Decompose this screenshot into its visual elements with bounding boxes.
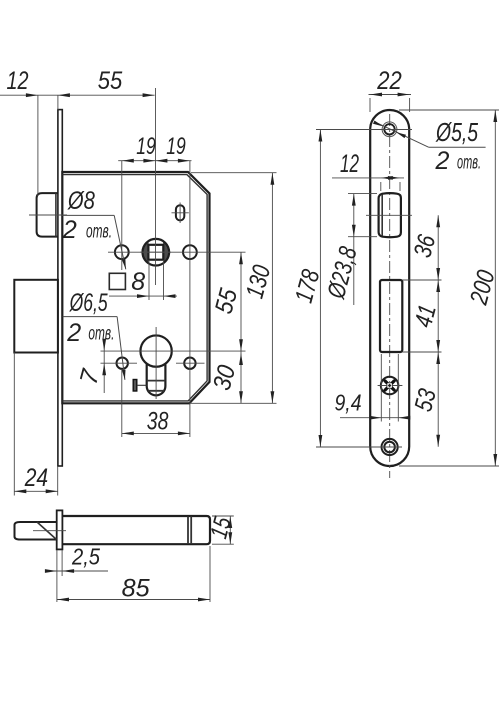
svg-text:8: 8 <box>131 268 145 296</box>
svg-text:2: 2 <box>434 147 449 175</box>
svg-text:2: 2 <box>66 319 81 347</box>
svg-text:2,5: 2,5 <box>71 544 100 570</box>
svg-text:22: 22 <box>376 67 401 95</box>
svg-text:отв.: отв. <box>88 323 114 344</box>
svg-text:Ø8: Ø8 <box>67 187 95 215</box>
svg-text:отв.: отв. <box>86 221 112 242</box>
svg-text:9,4: 9,4 <box>335 390 362 416</box>
svg-text:38: 38 <box>147 408 169 436</box>
svg-text:24: 24 <box>24 464 48 492</box>
svg-text:85: 85 <box>122 575 150 603</box>
svg-text:12: 12 <box>7 67 29 95</box>
svg-text:12: 12 <box>340 150 359 178</box>
svg-text:19: 19 <box>136 133 156 160</box>
svg-text:отв.: отв. <box>457 153 481 174</box>
svg-text:55: 55 <box>98 67 123 95</box>
svg-text:Ø6,5: Ø6,5 <box>69 289 108 317</box>
svg-text:19: 19 <box>166 133 186 160</box>
svg-text:Ø5,5: Ø5,5 <box>435 117 478 147</box>
svg-text:2: 2 <box>62 216 77 244</box>
